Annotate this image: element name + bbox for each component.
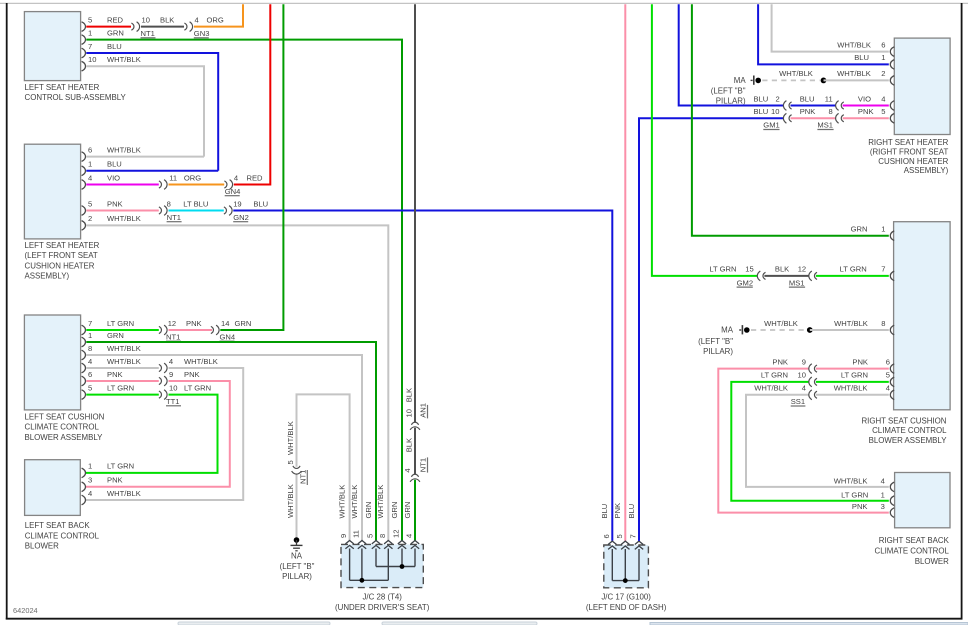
wire WHT/BLK heater pin6	[86, 145, 204, 156]
ground MA (left B pillar) upper	[711, 76, 761, 106]
label WHT/BLK above NT1	[286, 421, 295, 455]
label: J/C 17 (G100) (left end of dash)	[586, 593, 667, 612]
wire PNK to left back blower pin3	[86, 370, 230, 487]
wire PNK from top to J/C17 pin5	[624, 4, 626, 541]
svg-text:PNK: PNK	[613, 503, 622, 519]
pin 2 of right seat heater	[881, 69, 894, 85]
wire WHT/BLK dashed ground link lower	[751, 319, 806, 330]
pin 3 of left back blower	[82, 476, 123, 492]
pin 7 of left cushion blower	[82, 319, 93, 335]
svg-text:PNK: PNK	[852, 357, 868, 366]
svg-text:ORG: ORG	[207, 15, 224, 24]
connector on pnk wire	[159, 370, 173, 386]
svg-text:6: 6	[88, 370, 92, 379]
svg-text:2: 2	[776, 94, 780, 103]
svg-text:5: 5	[88, 383, 92, 392]
svg-text:WHT/BLK: WHT/BLK	[837, 40, 871, 49]
wire GRN GN4 up to top	[220, 4, 283, 330]
svg-text:BLU: BLU	[800, 94, 815, 103]
wire PNK to heater pin5	[843, 107, 889, 118]
connector GM2	[737, 271, 766, 287]
wire GRN from top to cushion pin1	[692, 4, 889, 236]
svg-text:NA: NA	[291, 552, 303, 561]
pin 8 of left cushion blower	[82, 344, 93, 360]
svg-text:6: 6	[602, 534, 611, 538]
wire LT GRN to left back blower pin1	[86, 383, 218, 473]
junction dot on ground link	[821, 78, 827, 84]
svg-text:14: 14	[221, 319, 229, 328]
wire BLK between GM2 and MS1	[764, 265, 809, 276]
svg-text:WHT/BLK: WHT/BLK	[107, 145, 141, 154]
label: left seat heater control sub-assembly	[25, 83, 127, 102]
pin 4 of left cushion blower	[82, 357, 93, 373]
svg-text:SS1: SS1	[791, 397, 805, 406]
wire WHT/BLK to cushion pin8	[810, 319, 889, 330]
svg-text:TT1: TT1	[166, 397, 180, 406]
svg-text:10: 10	[771, 107, 779, 116]
svg-text:CUSHION HEATER: CUSHION HEATER	[878, 157, 948, 166]
svg-text:LT GRN: LT GRN	[107, 319, 134, 328]
pin 5 of right cushion blower	[886, 371, 894, 387]
svg-text:6: 6	[886, 357, 890, 366]
pin 6 of right seat heater	[881, 40, 894, 56]
svg-text:CONTROL SUB-ASSEMBLY: CONTROL SUB-ASSEMBLY	[25, 93, 127, 102]
connector on pnk wire right	[809, 364, 817, 374]
svg-text:GN2: GN2	[233, 213, 249, 222]
connector GN3	[184, 15, 209, 38]
svg-text:GRN: GRN	[107, 28, 124, 37]
svg-text:GN4: GN4	[220, 332, 236, 341]
svg-text:LT GRN: LT GRN	[840, 265, 867, 274]
wire PNK pin6 to junction	[86, 370, 159, 381]
svg-text:LT GRN: LT GRN	[107, 462, 134, 471]
svg-text:7: 7	[881, 265, 885, 274]
pin 1 of right back blower	[841, 490, 894, 505]
ground NA (left B pillar)	[280, 537, 315, 581]
svg-text:LEFT SEAT HEATER: LEFT SEAT HEATER	[25, 83, 100, 92]
wire BLK from top to AN1	[414, 4, 416, 422]
pin 1 of left back blower	[82, 462, 135, 478]
wire LT GRN to cushion pin7	[816, 265, 889, 276]
svg-text:LEFT SEAT HEATER: LEFT SEAT HEATER	[25, 241, 100, 250]
pin 2 of left seat heater	[82, 214, 93, 230]
pin 5 of left seat heater control	[82, 15, 93, 31]
wire GRN NT1 to J/C28 pin4	[414, 480, 416, 541]
J/C17 internal bus pins 6-5-7	[612, 549, 639, 583]
wire WHT/BLK to heater pin2	[824, 69, 889, 80]
svg-text:6: 6	[881, 40, 885, 49]
svg-text:BLOWER ASSEMBLY: BLOWER ASSEMBLY	[25, 433, 104, 442]
wire WHT/BLK dashed ground link	[762, 69, 819, 80]
wire PNK pin5 to NT1	[86, 199, 159, 210]
wire PNK NT1 to GN4	[169, 319, 213, 330]
svg-text:8: 8	[88, 344, 92, 353]
connector on wht/blk wire	[159, 357, 173, 373]
svg-text:4: 4	[886, 384, 890, 393]
svg-text:CLIMATE CONTROL: CLIMATE CONTROL	[25, 531, 100, 540]
svg-text:(LEFT "B": (LEFT "B"	[698, 337, 733, 346]
pin 4 of left back blower	[82, 489, 141, 505]
svg-text:4: 4	[88, 173, 92, 182]
connector box: right seat back climate control blower	[895, 473, 950, 528]
junction connector J/C 17 (G100)	[604, 545, 649, 588]
svg-text:BLU: BLU	[253, 199, 268, 208]
connector GN4	[224, 173, 240, 196]
svg-text:WHT/BLK: WHT/BLK	[184, 357, 218, 366]
svg-text:PNK: PNK	[800, 107, 816, 116]
svg-text:PNK: PNK	[107, 476, 123, 485]
wire WHT/BLK ground NA to J/C28 pin9	[297, 394, 350, 540]
svg-text:MS1: MS1	[789, 278, 805, 287]
svg-text:5: 5	[88, 199, 92, 208]
connector on blu/vio wire	[836, 101, 844, 111]
svg-text:WHT/BLK: WHT/BLK	[837, 69, 871, 78]
label WHT/BLK below NT1	[286, 484, 295, 518]
pin 6 of right cushion blower	[886, 357, 894, 373]
svg-text:5: 5	[88, 15, 92, 24]
svg-text:4: 4	[405, 534, 414, 538]
wire PNK right back blower pin3 loop	[718, 357, 889, 512]
svg-text:10: 10	[169, 383, 177, 392]
wire WHT/BLK right back blower pin4 loop	[746, 384, 889, 487]
wire VIO to heater pin4	[843, 94, 889, 105]
svg-text:RIGHT SEAT CUSHION: RIGHT SEAT CUSHION	[861, 416, 946, 425]
pin 1 of right seat heater	[881, 53, 894, 69]
J/C28 internal bus wht/blk pins 9-11-8	[350, 549, 389, 583]
wire GRN pin1 to J/C28 pin5	[86, 331, 376, 541]
wire PNK between GM1 and MS1	[791, 107, 836, 118]
svg-text:CLIMATE CONTROL: CLIMATE CONTROL	[875, 547, 950, 556]
svg-text:8: 8	[829, 107, 833, 116]
pin 5 of left cushion blower	[82, 383, 93, 399]
J/C28 pin 4 arrow	[403, 502, 419, 549]
svg-text:CLIMATE CONTROL: CLIMATE CONTROL	[25, 423, 100, 432]
svg-text:WHT/BLK: WHT/BLK	[376, 485, 385, 519]
svg-text:ASSEMBLY): ASSEMBLY)	[904, 166, 949, 175]
svg-text:PNK: PNK	[858, 107, 874, 116]
svg-text:ASSEMBLY): ASSEMBLY)	[25, 272, 70, 281]
svg-text:4: 4	[88, 489, 92, 498]
J/C28 internal bus grn pins 5-12-4	[376, 549, 415, 569]
J/C17 pin 5 arrow	[613, 503, 629, 550]
svg-text:2: 2	[88, 214, 92, 223]
pin 1 of left seat heater	[82, 160, 93, 176]
wire GRN pin1 down to J/C28 pin12	[86, 28, 402, 540]
J/C17 pin 7 arrow	[627, 504, 643, 550]
wire BLU from top to heater pin1	[758, 4, 889, 64]
pin 1 of right cushion blower	[881, 225, 894, 241]
wire BLK AN1 to NT1	[414, 428, 416, 474]
connector on blu/blu wire	[783, 101, 791, 111]
svg-text:(LEFT "B": (LEFT "B"	[711, 86, 746, 95]
svg-text:RED: RED	[107, 15, 124, 24]
label: left seat heater cushion assembly	[25, 241, 100, 281]
svg-text:PNK: PNK	[852, 502, 868, 511]
svg-text:8: 8	[881, 319, 885, 328]
wire BLU between junctions	[791, 94, 836, 105]
svg-text:WHT/BLK: WHT/BLK	[286, 421, 295, 455]
svg-text:4: 4	[169, 357, 173, 366]
wire RED GN4 up to top	[234, 4, 270, 184]
connector NT1 on blk/grn wire	[403, 457, 428, 481]
svg-text:NT1: NT1	[299, 470, 308, 484]
svg-text:4: 4	[881, 94, 885, 103]
svg-text:LEFT SEAT CUSHION: LEFT SEAT CUSHION	[25, 412, 105, 421]
svg-text:NT1: NT1	[167, 213, 181, 222]
svg-text:BLU: BLU	[754, 94, 769, 103]
connector SS1	[791, 390, 817, 406]
svg-text:VIO: VIO	[858, 94, 871, 103]
diagram number label 642024	[13, 606, 38, 615]
svg-text:AN1: AN1	[419, 403, 428, 418]
svg-text:(LEFT "B": (LEFT "B"	[280, 562, 315, 571]
svg-text:WHT/BLK: WHT/BLK	[779, 69, 813, 78]
svg-text:11: 11	[352, 530, 361, 538]
wire WHT/BLK pin8 to J/C28 pin11	[86, 344, 362, 541]
svg-text:NT1: NT1	[141, 29, 155, 38]
svg-text:5: 5	[886, 371, 890, 380]
wire BLU from top to junction	[679, 4, 784, 105]
svg-text:9: 9	[802, 357, 806, 366]
svg-text:GRN: GRN	[364, 502, 373, 519]
wire BLU pin7 to heater pin1	[86, 42, 218, 171]
svg-text:WHT/BLK: WHT/BLK	[834, 477, 868, 486]
svg-text:5: 5	[286, 460, 295, 464]
wire WHT/BLK to left back blower pin4	[86, 357, 243, 500]
svg-text:WHT/BLK: WHT/BLK	[754, 384, 788, 393]
svg-text:GN4: GN4	[225, 187, 241, 196]
svg-text:NT1: NT1	[166, 332, 180, 341]
wire WHT/BLK pin2 to J/C28 pin8	[86, 214, 388, 540]
svg-text:10: 10	[88, 55, 96, 64]
svg-text:1: 1	[88, 28, 92, 37]
svg-text:7: 7	[629, 534, 638, 538]
connector AN1	[404, 403, 427, 430]
wire WHT/BLK pin10 to heater pin6	[86, 55, 204, 157]
svg-text:WHT/BLK: WHT/BLK	[834, 384, 868, 393]
pin 6 of left cushion blower	[82, 370, 93, 386]
svg-text:15: 15	[745, 265, 753, 274]
wire BLU heater pin1	[86, 160, 218, 171]
svg-text:WHT/BLK: WHT/BLK	[286, 484, 295, 518]
pin 4 of right back blower	[834, 477, 894, 492]
label: right seat cushion climate control blower assembly	[861, 416, 947, 445]
wire LT GRN right back blower pin1 loop	[731, 371, 889, 501]
pin 7 of right cushion blower	[881, 265, 894, 281]
svg-text:12: 12	[168, 319, 176, 328]
svg-text:MA: MA	[734, 76, 747, 85]
svg-text:PNK: PNK	[107, 199, 123, 208]
svg-text:642024: 642024	[13, 606, 38, 615]
svg-text:10: 10	[798, 371, 806, 380]
svg-text:LT GRN: LT GRN	[841, 490, 868, 499]
svg-text:BLK: BLK	[775, 265, 789, 274]
junction dot on lower ground link	[807, 327, 813, 333]
svg-text:PNK: PNK	[186, 319, 202, 328]
pin 1 of left cushion blower	[82, 331, 93, 347]
svg-text:PNK: PNK	[772, 357, 788, 366]
svg-text:LT BLU: LT BLU	[183, 199, 208, 208]
svg-text:CUSHION HEATER: CUSHION HEATER	[25, 261, 95, 270]
wire PNK to cushion pin6	[816, 357, 889, 368]
connector GN2	[224, 199, 249, 222]
svg-text:7: 7	[88, 42, 92, 51]
label BLK above AN1	[404, 388, 413, 402]
J/C28 pin 12 arrow	[390, 502, 406, 549]
svg-text:8: 8	[378, 534, 387, 538]
pin 6 of left seat heater	[82, 145, 93, 161]
svg-text:WHT/BLK: WHT/BLK	[337, 485, 346, 519]
svg-text:BLOWER: BLOWER	[915, 557, 949, 566]
connector NT1 on ground wire	[286, 460, 308, 485]
svg-text:PNK: PNK	[107, 370, 123, 379]
pin 8 of right cushion blower	[881, 319, 894, 335]
J/C28 pin 8 arrow	[376, 485, 392, 549]
svg-text:BLU: BLU	[854, 53, 869, 62]
svg-text:GRN: GRN	[235, 319, 252, 328]
svg-text:BLU: BLU	[754, 107, 769, 116]
svg-text:9: 9	[169, 370, 173, 379]
wire BLU GN2 to J/C17 pin6	[233, 199, 612, 541]
connector box: left seat heater (left front seat cushion heater assembly)	[24, 144, 80, 239]
connector box: right seat heater (right front seat cushion heater assembly)	[894, 38, 950, 134]
label: right seat back climate control blower	[875, 536, 950, 566]
svg-text:LT GRN: LT GRN	[841, 371, 868, 380]
connector NT1 on red/blk wire	[131, 15, 155, 38]
svg-text:11: 11	[169, 173, 177, 182]
J/C28 pin 11 arrow	[350, 485, 366, 549]
pin 4 of right seat heater	[881, 94, 894, 110]
svg-text:LT GRN: LT GRN	[184, 383, 211, 392]
J/C28 pin 5 arrow	[364, 502, 380, 549]
svg-text:4: 4	[403, 468, 412, 472]
ground MA (left B pillar) lower	[698, 325, 749, 356]
svg-text:4: 4	[881, 477, 885, 486]
svg-text:MS1: MS1	[817, 121, 833, 130]
svg-text:11: 11	[825, 94, 833, 103]
svg-text:LT GRN: LT GRN	[107, 383, 134, 392]
svg-text:10: 10	[404, 409, 413, 417]
svg-text:1: 1	[881, 225, 885, 234]
svg-text:PILLAR): PILLAR)	[703, 347, 733, 356]
connector at VIO/ORG junction	[159, 173, 177, 189]
svg-text:WHT/BLK: WHT/BLK	[107, 344, 141, 353]
svg-text:WHT/BLK: WHT/BLK	[107, 357, 141, 366]
svg-text:1: 1	[88, 160, 92, 169]
connector box: left seat cushion climate control blower assembly	[24, 315, 80, 410]
pin 5 of right seat heater	[881, 107, 894, 123]
svg-text:ORG: ORG	[184, 173, 201, 182]
svg-text:BLU: BLU	[107, 160, 122, 169]
svg-text:BLOWER ASSEMBLY: BLOWER ASSEMBLY	[869, 436, 948, 445]
label: left seat back climate control blower	[25, 521, 100, 551]
svg-text:19: 19	[233, 199, 241, 208]
wire WHT/BLK from top to heater pin6	[772, 4, 889, 51]
svg-text:7: 7	[88, 319, 92, 328]
svg-text:BLOWER: BLOWER	[25, 542, 59, 551]
svg-text:BLK: BLK	[160, 15, 174, 24]
UI strip below diagram	[178, 622, 968, 625]
connector on ltgrn wire right	[809, 377, 817, 387]
svg-text:1: 1	[881, 490, 885, 499]
label: right seat heater	[868, 138, 948, 175]
wire VIO pin4 to junction	[86, 173, 159, 184]
wire BLU from GM1 to J/C17 pin7	[639, 107, 784, 541]
svg-text:RIGHT SEAT BACK: RIGHT SEAT BACK	[879, 536, 950, 545]
svg-text:WHT/BLK: WHT/BLK	[107, 214, 141, 223]
connector box: left seat heater control sub-assembly	[24, 12, 80, 81]
wire LT GRN from top to GM2	[652, 4, 758, 276]
svg-text:VIO: VIO	[107, 173, 120, 182]
svg-text:BLU: BLU	[107, 42, 122, 51]
svg-text:GM1: GM1	[763, 121, 779, 130]
svg-text:1: 1	[88, 331, 92, 340]
connector box: right seat cushion climate control blower assembly	[894, 222, 951, 410]
J/C17 pin 6 arrow	[600, 504, 616, 550]
svg-text:3: 3	[88, 476, 92, 485]
svg-text:4: 4	[195, 15, 199, 24]
svg-text:WHT/BLK: WHT/BLK	[764, 319, 798, 328]
svg-text:BLU: BLU	[600, 504, 609, 519]
svg-text:WHT/BLK: WHT/BLK	[350, 485, 359, 519]
svg-text:4: 4	[88, 357, 92, 366]
connector MS1 on blk/ltgrn wire	[789, 271, 817, 287]
svg-text:WHT/BLK: WHT/BLK	[107, 55, 141, 64]
svg-text:CLIMATE CONTROL: CLIMATE CONTROL	[872, 426, 947, 435]
svg-text:8: 8	[167, 199, 171, 208]
svg-text:GM2: GM2	[737, 278, 753, 287]
wire ORG GN3 up to top	[194, 4, 243, 26]
svg-text:RIGHT SEAT HEATER: RIGHT SEAT HEATER	[868, 138, 948, 147]
svg-text:GRN: GRN	[390, 502, 399, 519]
svg-text:(LEFT FRONT SEAT: (LEFT FRONT SEAT	[25, 251, 98, 260]
svg-text:BLU: BLU	[627, 504, 636, 519]
pin 1 of left seat heater control	[82, 28, 93, 44]
pin 5 of left seat heater	[82, 199, 93, 215]
svg-text:1: 1	[881, 53, 885, 62]
wire WHT/BLK to cushion pin4	[816, 384, 889, 395]
svg-text:MA: MA	[721, 326, 734, 335]
svg-text:NT1: NT1	[419, 458, 428, 472]
pin 4 of left seat heater	[82, 173, 93, 189]
svg-text:BLK: BLK	[404, 438, 413, 452]
svg-text:PNK: PNK	[184, 370, 200, 379]
pin 4 of right cushion blower	[886, 384, 894, 400]
svg-text:4: 4	[802, 384, 806, 393]
svg-text:J/C 17 (G100): J/C 17 (G100)	[601, 593, 651, 602]
svg-text:GRN: GRN	[107, 331, 124, 340]
wire RED pin5 to NT1	[86, 15, 131, 26]
svg-text:9: 9	[339, 534, 348, 538]
svg-text:LT GRN: LT GRN	[761, 371, 788, 380]
connector box: left seat back climate control blower	[25, 460, 81, 516]
svg-text:1: 1	[88, 462, 92, 471]
svg-text:2: 2	[881, 69, 885, 78]
svg-text:GRN: GRN	[851, 225, 868, 234]
pin 3 of right back blower	[852, 502, 894, 517]
svg-text:5: 5	[615, 534, 624, 538]
svg-text:(UNDER DRIVER'S SEAT): (UNDER DRIVER'S SEAT)	[335, 603, 430, 612]
svg-text:(RIGHT FRONT SEAT: (RIGHT FRONT SEAT	[870, 147, 949, 156]
J/C28 pin 9 arrow	[337, 485, 353, 549]
wire LT GRN pin5 to TT1	[86, 383, 159, 394]
svg-text:WHT/BLK: WHT/BLK	[107, 489, 141, 498]
connector NT1 on pnk/ltblu wire	[159, 199, 182, 222]
wire WHT/BLK pin4 to junction	[86, 357, 159, 368]
svg-text:WHT/BLK: WHT/BLK	[834, 319, 868, 328]
svg-text:RED: RED	[247, 173, 264, 182]
svg-text:10: 10	[142, 15, 150, 24]
